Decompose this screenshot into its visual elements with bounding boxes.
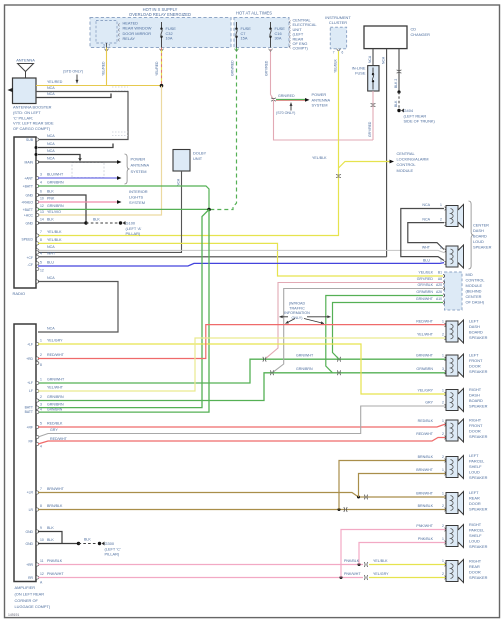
splice to power antenna (GRN/RED, S70 only)	[271, 95, 274, 100]
svg-text:GRY/RED: GRY/RED	[368, 121, 372, 137]
svg-text:BRN/BLK: BRN/BLK	[418, 455, 434, 459]
svg-text:PARCEL: PARCEL	[469, 528, 485, 533]
svg-text:CD: CD	[411, 27, 417, 32]
svg-text:NCA: NCA	[368, 55, 372, 63]
svg-text:SHELF: SHELF	[469, 464, 482, 469]
svg-text:BLK 2: BLK 2	[394, 79, 398, 88]
svg-text:GRN/BRN: GRN/BRN	[416, 290, 433, 294]
svg-text:REAR: REAR	[469, 496, 480, 501]
svg-text:GND: GND	[25, 542, 33, 546]
svg-text:5: 5	[40, 261, 42, 265]
wire: amp GND BLK pin 9	[38, 532, 62, 544]
svg-text:PNK/BLK: PNK/BLK	[344, 559, 360, 563]
svg-text:1: 1	[40, 378, 42, 382]
svg-text:BLK: BLK	[93, 218, 100, 222]
svg-text:ANTENNA: ANTENNA	[312, 97, 331, 102]
svg-text:2: 2	[442, 401, 444, 405]
svg-text:DASH: DASH	[469, 324, 480, 329]
wire: amp BRN/BLK pin 8 to rear speakers	[38, 509, 446, 511]
svg-text:9: 9	[40, 526, 42, 530]
svg-text:SYSTEM: SYSTEM	[312, 103, 328, 108]
wire: NCA 2 to center dash speaker	[408, 223, 444, 250]
svg-text:YEL/VIO: YEL/VIO	[47, 210, 61, 214]
wire: amp GRY to right dash speaker	[38, 406, 446, 437]
svg-text:(STD ONLY): (STD ONLY)	[63, 70, 83, 74]
svg-text:(LEFT REAR: (LEFT REAR	[404, 113, 427, 118]
svg-text:+CF: +CF	[27, 256, 34, 260]
svg-text:6: 6	[40, 190, 42, 194]
svg-text:+LF: +LF	[27, 381, 33, 385]
svg-text:PILLAR): PILLAR)	[126, 231, 141, 236]
svg-text:4: 4	[40, 252, 42, 256]
svg-text:SYSTEM: SYSTEM	[129, 200, 145, 205]
svg-text:DASH: DASH	[469, 393, 480, 398]
svg-text:NCA: NCA	[47, 157, 55, 161]
svg-text:7: 7	[40, 487, 42, 491]
svg-text:GRN/RED: GRN/RED	[278, 94, 295, 98]
CD changer	[364, 26, 407, 49]
wire: amp YEL/WHT to left dash speaker	[38, 338, 446, 391]
svg-text:MID: MID	[466, 272, 473, 277]
svg-text:10A: 10A	[166, 36, 173, 41]
svg-text:WHT: WHT	[422, 246, 431, 250]
svg-text:AMPLIFIER: AMPLIFIER	[15, 585, 36, 590]
svg-text:+RHEO: +RHEO	[21, 201, 33, 205]
svg-text:YEL/RED: YEL/RED	[47, 80, 63, 84]
svg-text:7: 7	[333, 51, 335, 55]
wire: YEL/BLK instrument cluster to radio pin 7	[38, 51, 339, 236]
svg-text:BLU/WHT: BLU/WHT	[47, 173, 64, 177]
svg-text:NCA: NCA	[176, 178, 180, 186]
svg-text:COMPT): COMPT)	[293, 46, 309, 51]
svg-text:CONTROL: CONTROL	[397, 162, 417, 167]
wire: CD changer NCA to radio pin 4	[386, 49, 388, 257]
svg-text:SPEAKER: SPEAKER	[469, 404, 488, 409]
antenna booster	[13, 78, 37, 104]
svg-text:YEL/GRY: YEL/GRY	[417, 389, 433, 393]
svg-text:ANTENNA: ANTENNA	[16, 58, 35, 63]
wire: amp YEL/GRY pin 1 to right dash speaker	[38, 344, 446, 394]
svg-text:4: 4	[40, 445, 42, 449]
wire: Dolby unit NCA to radio	[38, 171, 182, 252]
svg-text:1: 1	[442, 537, 444, 541]
wire: amp BRN/WHT pin 7 to rear speakers	[38, 493, 446, 498]
svg-text:LOCKING/ALARM: LOCKING/ALARM	[397, 157, 429, 162]
wire: radio BLU pin 5 to center speaker BLU 1	[38, 263, 444, 266]
svg-text:YEL/BLK: YEL/BLK	[47, 230, 62, 234]
splice: green junction	[207, 208, 211, 212]
svg-text:GRN/WHT: GRN/WHT	[416, 297, 434, 301]
right dash board speaker	[446, 390, 458, 411]
svg-text:RIGHT: RIGHT	[469, 522, 482, 527]
svg-text:8: 8	[40, 504, 42, 508]
fuse box: HOT AT ALL TIMES (central electrical unit, fuses C7 and C16)	[234, 18, 289, 48]
svg-text:FRONT: FRONT	[469, 358, 483, 363]
fuse C16 30A	[270, 22, 272, 29]
svg-text:NCA: NCA	[47, 86, 55, 90]
svg-text:ANTENNA BOOSTER: ANTENNA BOOSTER	[13, 105, 52, 110]
svg-text:BRN/WHT: BRN/WHT	[416, 468, 434, 472]
svg-text:OF CARGO COMPT): OF CARGO COMPT)	[13, 126, 51, 131]
wire: YEL/RED relay and fuse C32 to antenna booster	[106, 48, 108, 86]
ghost connector marks	[112, 86, 128, 88]
svg-text:RED/BLK: RED/BLK	[418, 419, 434, 423]
svg-text:1: 1	[442, 492, 444, 496]
svg-text:GRN/WHT: GRN/WHT	[296, 353, 314, 357]
svg-text:POWER: POWER	[131, 157, 146, 162]
svg-text:YEL/BLK: YEL/BLK	[312, 156, 327, 160]
svg-text:WHT: WHT	[47, 252, 56, 256]
wire: GRN/BRN amp to left front door speaker	[38, 373, 446, 401]
svg-text:6: 6	[342, 51, 344, 55]
svg-text:GRN/BRN: GRN/BRN	[47, 181, 64, 185]
wire: antenna booster NCA loop to radio SUB	[36, 92, 128, 140]
right parcel shelf loud speaker	[446, 526, 458, 547]
svg-text:GND: GND	[25, 530, 33, 534]
wire: radio NCA white to center speaker WHT 2	[38, 250, 444, 252]
radio	[14, 137, 36, 288]
svg-text:BRN/WHT: BRN/WHT	[47, 487, 65, 491]
svg-text:CHANGER: CHANGER	[411, 32, 431, 37]
svg-text:2: 2	[442, 455, 444, 459]
left parcel shelf loud speaker	[446, 457, 458, 478]
wire: CD changer BLK to ground G404	[398, 49, 400, 92]
svg-text:RIGHT: RIGHT	[469, 418, 482, 423]
svg-text:SPEAKER: SPEAKER	[469, 575, 488, 580]
amplifier	[14, 324, 36, 582]
svg-text:GRY: GRY	[425, 401, 433, 405]
svg-text:CLUSTER: CLUSTER	[329, 20, 347, 25]
svg-text:DOOR: DOOR	[469, 501, 481, 506]
wire: amp RED/BLK pin 5 to right front door speaker	[38, 425, 446, 428]
svg-text:2: 2	[40, 395, 42, 399]
svg-text:BLK: BLK	[47, 218, 54, 222]
svg-text:4: 4	[40, 408, 42, 412]
svg-text:BATT: BATT	[25, 410, 33, 414]
Dolby unit	[173, 150, 190, 172]
svg-text:SPEAKER: SPEAKER	[469, 369, 488, 374]
center dash board loud speaker (lower)	[446, 246, 458, 267]
svg-text:RIGHT: RIGHT	[469, 387, 482, 392]
svg-text:2: 2	[442, 432, 444, 436]
ground G404	[397, 109, 400, 112]
svg-text:+LF: +LF	[27, 343, 33, 347]
svg-text:BLK: BLK	[47, 190, 54, 194]
svg-text:RED/WHT: RED/WHT	[47, 353, 65, 357]
wire: GRN/WHT amp to left front door speaker	[38, 359, 446, 383]
svg-text:B1: B1	[438, 271, 442, 275]
svg-text:BOARD: BOARD	[469, 330, 483, 335]
svg-text:MODULE: MODULE	[397, 168, 414, 173]
svg-text:DOLBY: DOLBY	[193, 151, 207, 156]
wire: NCA 1 to center dash speaker	[401, 209, 444, 261]
svg-text:SIDE OF TRUNK): SIDE OF TRUNK)	[404, 119, 436, 124]
svg-text:NCA: NCA	[422, 203, 430, 207]
svg-text:LUGGAGE COMPT): LUGGAGE COMPT)	[15, 604, 51, 609]
svg-text:CORNER OF: CORNER OF	[15, 598, 39, 603]
wire: amp PNK/BLK pin 11 to right rear speakers	[38, 564, 363, 566]
svg-text:NCA: NCA	[382, 56, 386, 64]
wire: GRY/RED fuse C16 down	[270, 49, 272, 95]
svg-text:30A: 30A	[275, 36, 282, 41]
fuse C32 10A	[161, 22, 163, 29]
wire: GRY/RED to in-line fuse	[274, 100, 374, 141]
svg-text:GRN/BRN: GRN/BRN	[296, 367, 313, 371]
wire: radio GND BLK pin 6	[38, 195, 86, 223]
svg-text:LOUD: LOUD	[469, 470, 480, 475]
svg-text:BRN/BLK: BRN/BLK	[47, 504, 63, 508]
svg-text:PNK/WHT: PNK/WHT	[344, 572, 361, 576]
svg-text:11: 11	[40, 559, 44, 563]
svg-text:YEL/RED: YEL/RED	[101, 61, 105, 76]
svg-text:GRN/WHT: GRN/WHT	[416, 354, 434, 358]
svg-text:GRY/BLK: GRY/BLK	[417, 283, 433, 287]
left rear door speaker	[446, 493, 458, 514]
svg-text:1: 1	[442, 559, 444, 563]
svg-text:1: 1	[442, 389, 444, 393]
wire: radio +ANT BLU/WHT to power antenna	[38, 177, 117, 179]
wire: YEL/RED fuse C32 down to splice	[161, 48, 163, 86]
svg-text:POWER: POWER	[312, 92, 327, 97]
svg-text:3: 3	[40, 173, 42, 177]
svg-text:BATT: BATT	[25, 406, 33, 410]
svg-text:(W/ROAD: (W/ROAD	[289, 302, 306, 306]
svg-text:+BATT: +BATT	[23, 208, 33, 212]
svg-text:7: 7	[40, 230, 42, 234]
svg-text:PNK/BLK: PNK/BLK	[418, 537, 434, 541]
MID control module	[445, 272, 463, 310]
svg-text:OF DASH): OF DASH)	[466, 300, 485, 305]
svg-text:(S70 ONLY): (S70 ONLY)	[276, 111, 295, 115]
svg-text:+ACC: +ACC	[24, 214, 34, 218]
svg-text:BRN/BLK: BRN/BLK	[418, 504, 434, 508]
svg-text:(BEHIND: (BEHIND	[466, 289, 482, 294]
wire: GRN/WHT MID A10 tap	[333, 303, 444, 360]
svg-text:SPEAKER: SPEAKER	[469, 475, 488, 480]
svg-text:RED/WHT: RED/WHT	[416, 320, 434, 324]
wire: in-line fuse to splice (GRY/RED)	[372, 91, 374, 140]
svg-text:NCA: NCA	[47, 92, 55, 96]
svg-text:2: 2	[440, 246, 442, 250]
svg-text:BLK: BLK	[84, 538, 91, 542]
svg-text:BLU: BLU	[47, 261, 54, 265]
svg-text:PARCEL: PARCEL	[469, 459, 485, 464]
svg-text:LEFT: LEFT	[469, 490, 479, 495]
svg-text:NCA: NCA	[47, 327, 55, 331]
svg-text:YEL/BLK: YEL/BLK	[373, 559, 388, 563]
svg-text:1: 1	[442, 468, 444, 472]
svg-text:RIGHT: RIGHT	[469, 559, 482, 564]
svg-text:12: 12	[40, 269, 44, 273]
svg-text:CENTRAL: CENTRAL	[397, 151, 416, 156]
wire: GRN/BRN MID A26 tap	[326, 296, 443, 373]
svg-text:CENTER: CENTER	[473, 223, 489, 228]
svg-text:SPEAKER: SPEAKER	[469, 335, 488, 340]
svg-text:LOUD: LOUD	[473, 239, 484, 244]
svg-text:(ON LEFT REAR: (ON LEFT REAR	[15, 591, 45, 596]
svg-text:LEFT: LEFT	[469, 319, 479, 324]
svg-text:12: 12	[40, 204, 44, 208]
svg-text:GRY/RED: GRY/RED	[417, 277, 434, 281]
svg-text:+RD: +RD	[26, 357, 33, 361]
wire: GRN/BRN trunk down to amplifier BATT	[38, 210, 209, 408]
svg-text:OVERLOAD RELAY ENERGIZED: OVERLOAD RELAY ENERGIZED	[129, 12, 191, 17]
svg-text:BOARD: BOARD	[473, 234, 487, 239]
svg-text:INTERIOR: INTERIOR	[129, 189, 148, 194]
svg-text:BOARD: BOARD	[469, 398, 483, 403]
wire: GRY/RED MID A8 tap	[266, 283, 443, 359]
svg-text:RF: RF	[28, 440, 33, 444]
svg-text:RELAY: RELAY	[123, 36, 136, 41]
svg-text:A20: A20	[436, 283, 442, 287]
svg-text:+ANT: +ANT	[24, 177, 33, 181]
wire: radio MAIN NCA to power antenna system	[38, 161, 117, 163]
svg-text:NCA: NCA	[47, 134, 55, 138]
svg-text:‘C’ PILLAR;: ‘C’ PILLAR;	[13, 115, 33, 120]
svg-text:FUSE: FUSE	[355, 71, 366, 76]
svg-text:PILLAR): PILLAR)	[105, 552, 120, 557]
fuse box: HOT IN X SUPPLY (heated rear window door mirror relay + fuse C32)	[90, 18, 231, 48]
wire: radio SPEED YEL/BLK pin 8 to MID B1	[38, 243, 443, 276]
svg-text:(LEFT ‘C’: (LEFT ‘C’	[105, 546, 121, 551]
svg-text:G100: G100	[126, 221, 136, 226]
svg-text:SPEAKER: SPEAKER	[469, 544, 488, 549]
right front door speaker	[446, 420, 458, 441]
wire: GRN/BRN trunk 2 down to amplifier BATT	[38, 210, 209, 413]
svg-text:GRN/BRN: GRN/BRN	[47, 408, 63, 412]
svg-text:15A: 15A	[241, 36, 248, 41]
svg-text:GRN/BRN: GRN/BRN	[47, 402, 64, 406]
svg-text:BRN/WHT: BRN/WHT	[416, 492, 434, 496]
svg-text:YEL/BLK: YEL/BLK	[333, 59, 337, 73]
svg-text:A8: A8	[438, 277, 442, 281]
svg-text:149191: 149191	[8, 613, 19, 617]
svg-text:SUB: SUB	[26, 138, 34, 142]
left front door speaker	[446, 355, 458, 376]
wire: YEL/VIO fuse C32 to radio +ACC	[38, 86, 162, 215]
svg-text:LOUD: LOUD	[469, 539, 480, 544]
svg-text:-CF: -CF	[27, 263, 33, 267]
svg-text:GRN/BRN: GRN/BRN	[47, 204, 64, 208]
branch: YEL/BLK to central locking/alarm control module	[339, 162, 391, 169]
svg-text:INFORMATION: INFORMATION	[284, 311, 310, 315]
svg-text:(STD: ON LEFT: (STD: ON LEFT	[13, 110, 41, 115]
wire: radio NCA loop to amplifier	[38, 282, 118, 333]
svg-text:A: A	[40, 581, 43, 585]
svg-text:NCA: NCA	[47, 245, 55, 249]
svg-text:4: 4	[40, 181, 42, 185]
svg-text:3: 3	[40, 402, 42, 406]
svg-text:1: 1	[40, 339, 42, 343]
svg-text:1: 1	[442, 419, 444, 423]
svg-text:PNK/BLK: PNK/BLK	[47, 559, 63, 563]
svg-text:TRAFFIC: TRAFFIC	[289, 306, 305, 310]
power antenna system brace	[125, 154, 130, 184]
radio pin sockets	[37, 138, 39, 141]
svg-text:MODULE: MODULE	[466, 283, 483, 288]
svg-text:8: 8	[40, 238, 42, 242]
svg-text:YEL/WHT: YEL/WHT	[47, 386, 64, 390]
wire: amp RED/WHT pin 4 to right front door speaker	[38, 438, 446, 445]
svg-text:(LEFT ‘A’: (LEFT ‘A’	[126, 226, 142, 231]
svg-text:SPEAKER: SPEAKER	[473, 245, 492, 250]
svg-text:GRN/BRN: GRN/BRN	[47, 395, 64, 399]
svg-text:NCA: NCA	[47, 276, 55, 280]
wire: radio +BATT GRN/BRN pin 4	[38, 186, 209, 210]
svg-text:PNK/WHT: PNK/WHT	[416, 524, 433, 528]
svg-text:GND: GND	[25, 222, 33, 226]
svg-text:SHELF: SHELF	[469, 533, 482, 538]
svg-text:UNIT: UNIT	[193, 156, 203, 161]
svg-text:BLU: BLU	[423, 259, 430, 263]
svg-text:G404: G404	[404, 108, 414, 113]
svg-text:ANTENNA: ANTENNA	[131, 163, 150, 168]
wire: GRN/RED fuse C7 to splice (dashed)	[209, 48, 237, 210]
wire: GRY/BLK MID A20 tap	[274, 289, 444, 372]
svg-text:LEFT: LEFT	[469, 353, 479, 358]
svg-text:3: 3	[103, 43, 105, 47]
wire: amp GND BLK pin 10 to ground G300	[38, 543, 79, 545]
svg-text:13: 13	[40, 210, 44, 214]
svg-text:GRN/WHT: GRN/WHT	[47, 378, 65, 382]
wire: radio +RHEO PNK to interior lights	[38, 201, 117, 203]
svg-text:SYSTEM: SYSTEM	[131, 169, 147, 174]
svg-text:2: 2	[442, 572, 444, 576]
svg-text:12: 12	[40, 572, 44, 576]
svg-text:GRY: GRY	[50, 428, 58, 432]
svg-text:DOOR: DOOR	[469, 429, 481, 434]
relay: heated rear window door mirror relay	[96, 21, 117, 44]
svg-text:YEL/GRY: YEL/GRY	[47, 339, 63, 343]
svg-text:14: 14	[40, 218, 44, 222]
svg-text:2: 2	[40, 353, 42, 357]
svg-text:2: 2	[442, 504, 444, 508]
svg-text:5: 5	[40, 422, 42, 426]
svg-text:YEL/GRY: YEL/GRY	[373, 572, 389, 576]
svg-text:PNK/WHT: PNK/WHT	[47, 572, 64, 576]
svg-text:SPEAKER: SPEAKER	[469, 434, 488, 439]
svg-text:7: 7	[109, 43, 111, 47]
svg-text:MAIN: MAIN	[25, 161, 34, 165]
svg-text:2: 2	[440, 217, 442, 221]
svg-text:FRONT: FRONT	[469, 423, 483, 428]
svg-text:2: 2	[442, 524, 444, 528]
right rear door speaker	[446, 561, 458, 582]
svg-text:RADIO: RADIO	[13, 291, 26, 296]
svg-text:LF: LF	[29, 389, 33, 393]
svg-text:+LR: +LR	[27, 491, 34, 495]
svg-text:V70: LEFT REAR SIDE: V70: LEFT REAR SIDE	[13, 121, 54, 126]
svg-text:RED/WHT: RED/WHT	[50, 437, 68, 441]
center dash board loud speaker (upper)	[446, 206, 458, 227]
svg-text:2: 2	[442, 333, 444, 337]
amplifier pin sockets	[37, 342, 39, 345]
radio NCA stub pin	[38, 144, 113, 148]
wire: amp RED/WHT pin 2 to left dash speaker	[38, 325, 446, 359]
svg-text:NCA: NCA	[422, 217, 430, 221]
svg-text:GRN/RED: GRN/RED	[230, 60, 234, 76]
svg-text:A10: A10	[436, 297, 442, 301]
svg-text:BLK: BLK	[47, 538, 54, 542]
svg-text:RED/WHT: RED/WHT	[416, 432, 434, 436]
svg-text:GRY/RED: GRY/RED	[264, 60, 268, 76]
svg-text:GND: GND	[25, 194, 33, 198]
svg-text:+RR: +RR	[26, 563, 33, 567]
svg-text:A26: A26	[436, 290, 442, 294]
svg-text:DOOR: DOOR	[469, 570, 481, 575]
svg-text:YEL/RED: YEL/RED	[155, 61, 159, 76]
svg-text:REAR: REAR	[469, 564, 480, 569]
